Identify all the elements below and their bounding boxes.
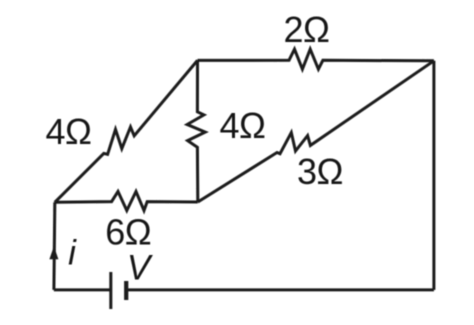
svg-text:V: V <box>127 248 154 287</box>
svg-text:i: i <box>68 233 77 272</box>
wire bottom left E to battery <box>54 288 111 291</box>
battery V long plate <box>109 272 112 309</box>
svg-text:3Ω: 3Ω <box>297 151 343 192</box>
wire left C-E with junctions <box>52 202 56 290</box>
wire right B-F <box>432 61 435 290</box>
svg-text:6Ω: 6Ω <box>105 212 151 253</box>
svg-text:2Ω: 2Ω <box>284 9 330 50</box>
wire battery to F bottom right <box>126 288 434 291</box>
resistor 4ohm middle on wire A-D <box>187 60 205 202</box>
battery V short plate <box>124 281 128 300</box>
resistor 2ohm on top wire A-B <box>198 49 434 69</box>
svg-text:4Ω: 4Ω <box>220 105 266 146</box>
svg-text:4Ω: 4Ω <box>46 111 92 152</box>
current arrow i head <box>49 246 58 259</box>
resistor 4ohm left diagonal on wire C-A <box>55 60 198 202</box>
resistor 3ohm diagonal on wire D-B <box>198 61 434 202</box>
resistor 6ohm on wire C-D <box>55 192 198 211</box>
